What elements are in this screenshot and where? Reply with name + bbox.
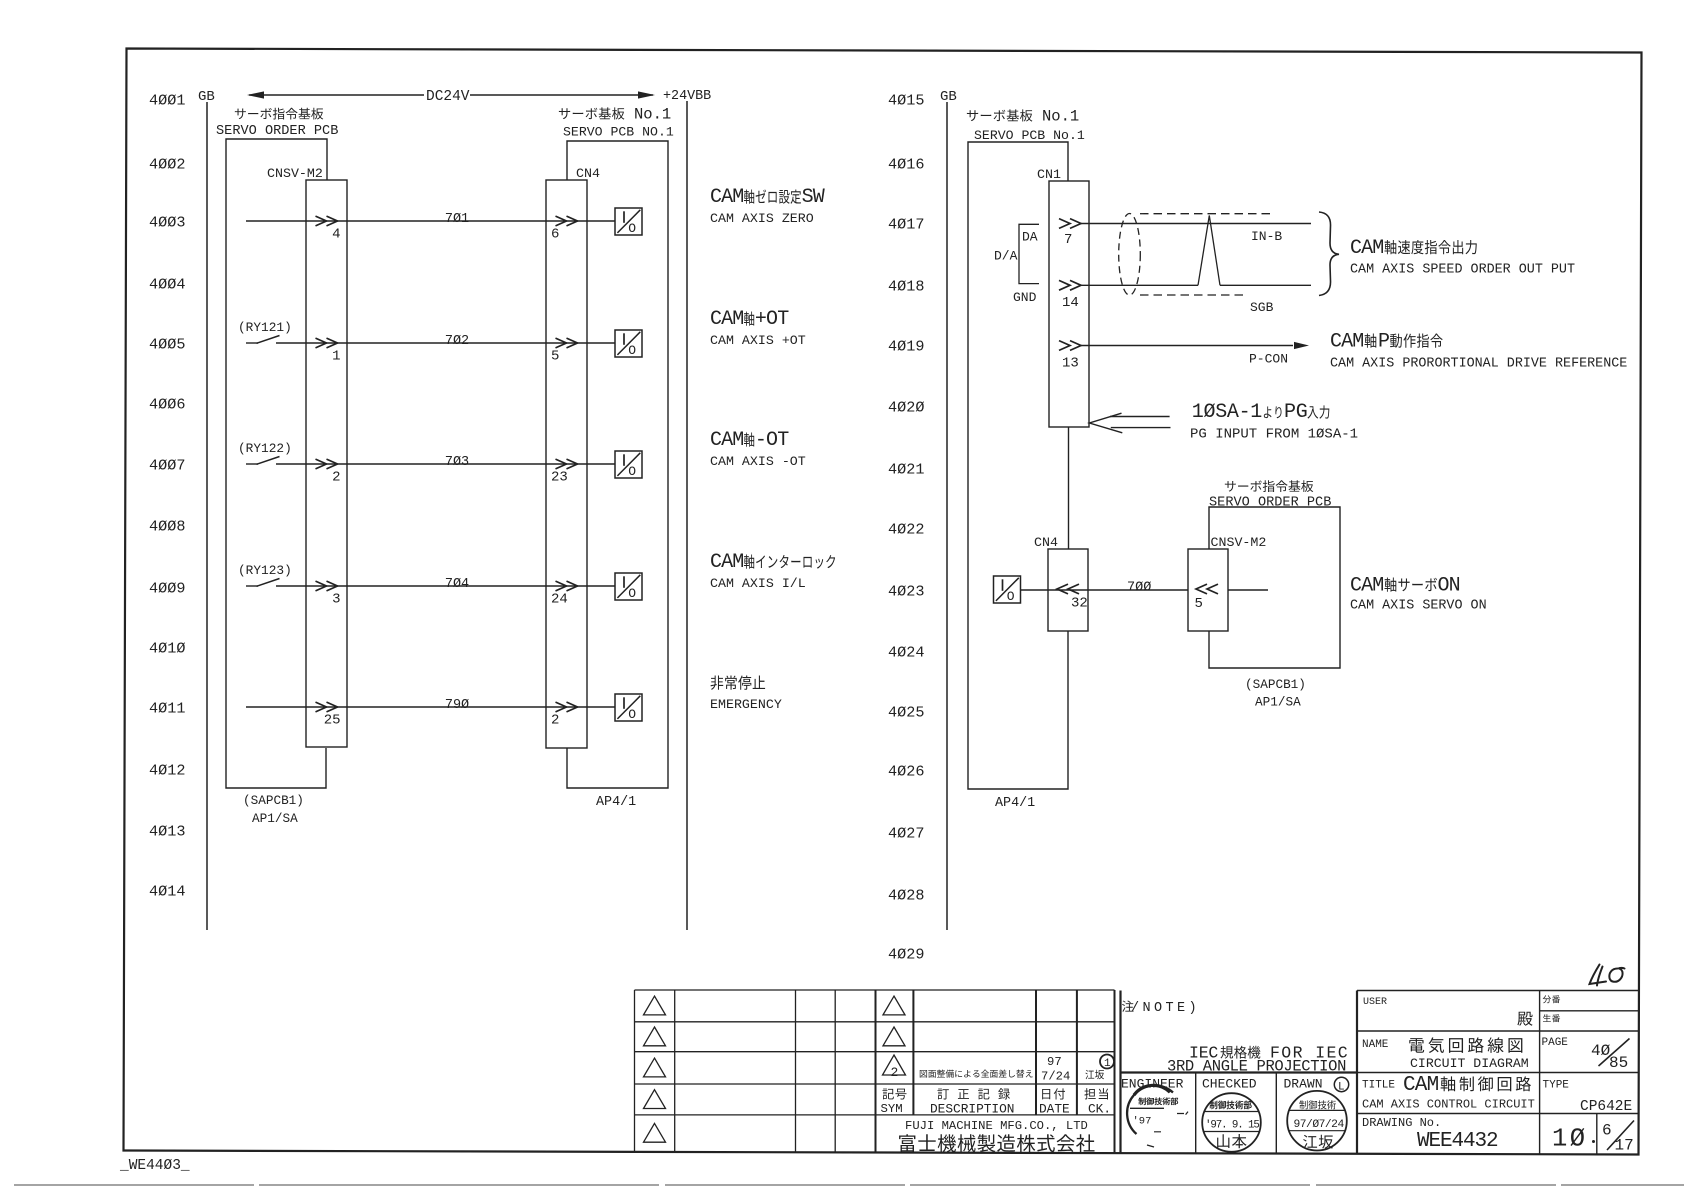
svg-text:SERVO PCB NO.1: SERVO PCB NO.1 [563, 125, 674, 140]
svg-text:4Ø29: 4Ø29 [888, 946, 924, 964]
svg-text:O: O [628, 343, 636, 358]
svg-text:7Ø2: 7Ø2 [445, 334, 469, 349]
svg-text:5: 5 [1195, 596, 1203, 612]
stamp checked [1202, 1093, 1261, 1152]
svg-text:4Ø18: 4Ø18 [888, 278, 924, 296]
rev triangle L5 [644, 1123, 666, 1142]
svg-text:WEE4432: WEE4432 [1417, 1130, 1498, 1153]
svg-text:4ØØ5: 4ØØ5 [149, 336, 185, 354]
svg-text:_WE44Ø3_: _WE44Ø3_ [119, 1158, 190, 1174]
svg-text:PAGE: PAGE [1542, 1037, 1569, 1049]
title block grid right [1357, 991, 1639, 1114]
wire PG input upper [1110, 416, 1170, 418]
svg-text:7Ø3: 7Ø3 [445, 455, 469, 470]
svg-text:4Ø14: 4Ø14 [149, 883, 185, 901]
shield cable dashed outline [1119, 214, 1141, 296]
rev triangle L2 [644, 1027, 666, 1046]
I/O symbol row 703 [615, 451, 642, 478]
rev triangle L4 [644, 1090, 666, 1109]
svg-text:+OT: +OT [755, 308, 789, 331]
svg-text:P: P [1378, 331, 1389, 354]
svg-text:14: 14 [1062, 295, 1079, 311]
svg-text:4ØØ7: 4ØØ7 [149, 457, 185, 475]
node tono [1517, 1012, 1532, 1026]
svg-text:3RD ANGLE PROJECTION: 3RD ANGLE PROJECTION [1167, 1058, 1346, 1076]
node bunban [1543, 995, 1551, 1003]
node denki kairo zu [1409, 1038, 1424, 1053]
svg-text:CIRCUIT DIAGRAM: CIRCUIT DIAGRAM [1410, 1056, 1529, 1071]
power rail +24VBB [686, 101, 688, 930]
svg-text:PG: PG [1284, 401, 1307, 424]
svg-text:SERVO PCB No.1: SERVO PCB No.1 [974, 128, 1085, 143]
svg-text:4Ø17: 4Ø17 [888, 216, 924, 234]
pin 32 CN4 right [1057, 584, 1079, 594]
node circled 1 mark [1100, 1055, 1114, 1069]
box SERVO ORDER PCB (SAPCB1) [226, 139, 327, 788]
svg-text:No.1: No.1 [634, 106, 671, 124]
svg-text:SGB: SGB [1250, 300, 1274, 315]
rev triangle L3 [644, 1058, 666, 1077]
pin 25 CNSV-M2 left [316, 702, 338, 712]
svg-text:1ØSA-1: 1ØSA-1 [1192, 401, 1263, 424]
svg-text:SERVO ORDER PCB: SERVO ORDER PCB [1209, 496, 1331, 511]
node header CK [1084, 1088, 1095, 1099]
twisted pair crossover symbol [1198, 216, 1220, 286]
svg-text:TITLE: TITLE [1362, 1080, 1395, 1092]
svg-text:CAM AXIS CONTROL CIRCUIT: CAM AXIS CONTROL CIRCUIT [1362, 1098, 1535, 1112]
svg-text:O: O [628, 707, 636, 722]
connector CN4 right [1048, 549, 1088, 631]
connector CNSV-M2 left [306, 180, 347, 747]
svg-text:CK.: CK. [1088, 1102, 1111, 1117]
svg-text:1: 1 [1104, 1058, 1111, 1070]
node servo order pcb label JP left [235, 109, 246, 120]
svg-text:AP4/1: AP4/1 [596, 795, 636, 810]
svg-text:CAM: CAM [1330, 331, 1363, 354]
box SERVO ORDER PCB right (SAPCB1) [1209, 507, 1340, 668]
svg-text:ON: ON [1438, 575, 1460, 598]
wire 700 [1021, 589, 1269, 591]
svg-text:7/24: 7/24 [1041, 1070, 1070, 1084]
wire SGB [1081, 284, 1311, 286]
svg-text:17: 17 [1615, 1137, 1634, 1155]
pin 5 CN4 left [556, 338, 578, 348]
svg-text:DATE: DATE [1039, 1102, 1070, 1117]
node note label [1122, 1000, 1134, 1011]
svg-text:5: 5 [551, 349, 559, 365]
svg-text:4ØØ3: 4ØØ3 [149, 214, 185, 232]
pin 14 CN1 [1059, 280, 1081, 290]
svg-text:(RY123): (RY123) [238, 563, 292, 578]
svg-text:CAM: CAM [710, 551, 743, 574]
svg-text:13: 13 [1062, 356, 1079, 372]
svg-text:4Ø13: 4Ø13 [149, 823, 185, 841]
svg-text:CAM AXIS I/L: CAM AXIS I/L [710, 576, 806, 591]
svg-text:GND: GND [1013, 290, 1037, 305]
wire DC24V span [249, 94, 653, 96]
node description EMERGENCY [711, 676, 724, 690]
svg-text:FUJI MACHINE MFG.CO., LTD: FUJI MACHINE MFG.CO., LTD [905, 1119, 1088, 1133]
svg-text:TYPE: TYPE [1543, 1080, 1570, 1092]
wire P-CON [1081, 345, 1293, 347]
wire CN1 to CN4 vertical [1068, 427, 1070, 549]
svg-text:CNSV-M2: CNSV-M2 [267, 166, 323, 181]
svg-text:(SAPCB1): (SAPCB1) [1245, 677, 1306, 692]
rev triangle L1 [644, 996, 666, 1015]
svg-text:'97: '97 [1133, 1116, 1152, 1128]
svg-text:CN1: CN1 [1037, 167, 1061, 182]
box SERVO PCB No.1 left (AP4/1) [567, 141, 668, 788]
pin 23 CN4 left [556, 459, 578, 469]
svg-text:CAM AXIS +OT: CAM AXIS +OT [710, 333, 806, 348]
svg-text:6: 6 [1602, 1122, 1612, 1140]
stamp row dividers [1196, 1073, 1277, 1155]
svg-text:85: 85 [1609, 1054, 1628, 1072]
wire 704 [276, 585, 615, 587]
svg-text:4Ø15: 4Ø15 [888, 92, 924, 110]
node header SYM [882, 1089, 893, 1100]
I/O symbol row 790 [615, 694, 642, 721]
svg-text:(SAPCB1): (SAPCB1) [243, 793, 304, 808]
svg-text:EMERGENCY: EMERGENCY [710, 697, 782, 712]
pin 3 CNSV-M2 left [316, 581, 338, 591]
svg-text:4ØØ2: 4ØØ2 [149, 156, 185, 174]
box SERVO PCB No.1 right (AP4/1) [968, 142, 1068, 789]
svg-text:4ØØ8: 4ØØ8 [149, 518, 185, 536]
svg-text:4Ø25: 4Ø25 [888, 704, 924, 722]
pin 13 CN1 [1059, 341, 1081, 351]
stamp engineer [1127, 1086, 1173, 1134]
svg-text:NAME: NAME [1362, 1039, 1389, 1051]
connector CN1 [1049, 181, 1089, 427]
svg-text:4ØØ9: 4ØØ9 [149, 580, 185, 598]
svg-text:CAM: CAM [1350, 237, 1383, 260]
svg-text:4Ø19: 4Ø19 [888, 338, 924, 356]
svg-text:3: 3 [332, 592, 340, 608]
pin 2 CNSV-M2 left [316, 459, 338, 469]
svg-text:CN4: CN4 [576, 166, 600, 181]
svg-text:CAM: CAM [1350, 575, 1383, 598]
pin 6 CN4 left [556, 216, 578, 226]
pin 24 CN4 left [556, 581, 578, 591]
svg-text:No.1: No.1 [1042, 108, 1079, 126]
svg-text:CAM AXIS PRORORTIONAL DRIVE RE: CAM AXIS PRORORTIONAL DRIVE REFERENCE [1330, 357, 1627, 372]
power rail GB right [946, 102, 948, 930]
svg-text:SYM: SYM [881, 1102, 903, 1116]
svg-text:7Ø1: 7Ø1 [445, 212, 469, 227]
node seiban [1543, 1014, 1551, 1022]
wire 702 [276, 342, 615, 344]
svg-text:CAM AXIS SERVO ON: CAM AXIS SERVO ON [1350, 599, 1487, 614]
svg-text:CAM: CAM [1403, 1074, 1439, 1097]
rev triangle 2 [883, 1055, 906, 1075]
pin 4 CNSV-M2 left [316, 216, 338, 226]
svg-text:4Ø11: 4Ø11 [149, 700, 185, 718]
svg-text:CAM: CAM [710, 429, 743, 452]
svg-text:1Ø: 1Ø [1552, 1125, 1588, 1154]
svg-text:CHECKED: CHECKED [1202, 1077, 1257, 1092]
svg-text:SERVO ORDER PCB: SERVO ORDER PCB [216, 124, 338, 139]
svg-text:(RY121): (RY121) [238, 320, 292, 335]
rev triangle M2 [883, 1027, 905, 1046]
svg-text:CAM AXIS -OT: CAM AXIS -OT [710, 454, 806, 469]
pin 2 CN4 left [556, 702, 578, 712]
svg-text:4Ø21: 4Ø21 [888, 461, 924, 479]
svg-text:DRAWN: DRAWN [1284, 1077, 1323, 1092]
node D/A bracket [1019, 224, 1039, 283]
svg-text:4Ø26: 4Ø26 [888, 763, 924, 781]
node fuji kikai JP [899, 1134, 915, 1152]
svg-text:USER: USER [1363, 997, 1387, 1008]
svg-text:P-CON: P-CON [1249, 352, 1288, 367]
svg-text:O: O [628, 221, 636, 236]
node servo pcb no1 label JP left [559, 108, 570, 119]
wire [14, 1184, 1684, 1186]
I/O symbol servo on [994, 576, 1021, 603]
svg-text:25: 25 [324, 713, 341, 729]
svg-text:4Ø27: 4Ø27 [888, 825, 924, 843]
rev table left [635, 990, 876, 1115]
svg-text:4Ø24: 4Ø24 [888, 644, 924, 662]
node servo order pcb label JP right [1225, 481, 1236, 492]
connector CNSV-M2 right [1188, 549, 1228, 631]
svg-text:CAM AXIS ZERO: CAM AXIS ZERO [710, 211, 814, 226]
svg-text:CAM: CAM [710, 186, 743, 209]
pin 7 CN1 [1059, 219, 1081, 229]
pin 5 CNSV-M2 right [1196, 584, 1218, 594]
note box [1121, 991, 1358, 1155]
svg-text:CAM: CAM [710, 308, 743, 331]
rev table middle [876, 990, 1115, 1115]
svg-text:6: 6 [551, 227, 559, 243]
stamp drawn [1287, 1091, 1347, 1151]
svg-text:7: 7 [1064, 232, 1072, 248]
svg-text:D/A: D/A [994, 249, 1018, 264]
I/O symbol row 702 [615, 330, 642, 357]
node revision by 江坂 [1085, 1070, 1094, 1079]
svg-text:32: 32 [1071, 596, 1088, 612]
svg-text:2: 2 [551, 713, 559, 729]
svg-text:4: 4 [332, 227, 340, 243]
svg-text:IN-B: IN-B [1251, 229, 1282, 244]
svg-text:2: 2 [332, 470, 340, 486]
svg-text:DC24V: DC24V [426, 89, 470, 105]
svg-text:7Ø4: 7Ø4 [445, 577, 469, 592]
svg-text:CP642E: CP642E [1580, 1099, 1632, 1115]
node revision description [920, 1070, 927, 1078]
svg-text:(RY122): (RY122) [238, 441, 292, 456]
svg-text:CNSV-M2: CNSV-M2 [1211, 535, 1267, 550]
node header DESCRIPTION [937, 1089, 948, 1100]
svg-text:/NOTE): /NOTE) [1131, 1001, 1200, 1016]
svg-text:4Ø12: 4Ø12 [149, 762, 185, 780]
svg-text:AP1/SA: AP1/SA [252, 811, 298, 826]
wire IN-B [1081, 223, 1311, 225]
svg-text:O: O [1007, 589, 1015, 604]
svg-text:2: 2 [891, 1065, 899, 1080]
svg-text:DA: DA [1022, 230, 1038, 245]
wire PG input arrowhead [1089, 413, 1122, 433]
node servo pcb no1 label JP right [967, 110, 978, 121]
svg-text:O: O [628, 586, 636, 601]
svg-text:DESCRIPTION: DESCRIPTION [930, 1102, 1014, 1117]
wire 703 [276, 463, 615, 465]
svg-text:L: L [1338, 1082, 1345, 1094]
rev triangle M1 [883, 996, 905, 1015]
brace speed order output [1319, 212, 1339, 296]
svg-text:24: 24 [551, 592, 568, 608]
svg-text:4Ø22: 4Ø22 [888, 521, 924, 539]
svg-text:4ØØ6: 4ØØ6 [149, 396, 185, 414]
power rail GB left [206, 102, 208, 930]
connector CN4 left [546, 180, 587, 748]
node circled L [1334, 1077, 1348, 1091]
svg-text:O: O [628, 464, 636, 479]
svg-text:GB: GB [940, 89, 957, 105]
svg-text:79Ø: 79Ø [445, 698, 469, 713]
I/O symbol row 704 [615, 573, 642, 600]
pin 1 CNSV-M2 left [316, 338, 338, 348]
svg-text:4Ø16: 4Ø16 [888, 156, 924, 174]
wire 701 [246, 220, 615, 222]
svg-text:DRAWING No.: DRAWING No. [1362, 1116, 1441, 1130]
svg-text:CN4: CN4 [1034, 535, 1058, 550]
node header DATE [1042, 1089, 1050, 1099]
svg-text:AP4/1: AP4/1 [995, 796, 1035, 811]
svg-text:4ØØ1: 4ØØ1 [149, 92, 185, 110]
node handwritten 40 [1590, 965, 1607, 986]
svg-text:-OT: -OT [755, 429, 789, 452]
svg-text:4Ø23: 4Ø23 [888, 583, 924, 601]
svg-text:CAM AXIS SPEED ORDER OUT PUT: CAM AXIS SPEED ORDER OUT PUT [1350, 263, 1575, 278]
I/O symbol row 701 [615, 208, 642, 235]
wire 790 [246, 706, 615, 708]
svg-text:PG INPUT FROM 1ØSA-1: PG INPUT FROM 1ØSA-1 [1190, 427, 1358, 443]
svg-text:'97. 9. 15: '97. 9. 15 [1205, 1120, 1259, 1132]
svg-text:23: 23 [551, 470, 568, 486]
svg-text:4Ø2Ø: 4Ø2Ø [888, 399, 924, 417]
svg-text:SW: SW [802, 186, 825, 209]
svg-text:97/Ø7/24: 97/Ø7/24 [1294, 1119, 1345, 1131]
svg-text:7ØØ: 7ØØ [1127, 581, 1151, 596]
svg-text:AP1/SA: AP1/SA [1255, 695, 1301, 710]
svg-text:4Ø28: 4Ø28 [888, 887, 924, 905]
svg-text:1: 1 [332, 349, 340, 365]
svg-text:4ØØ4: 4ØØ4 [149, 276, 185, 294]
svg-text:97: 97 [1047, 1055, 1062, 1069]
wire PG input lower [1111, 427, 1171, 429]
svg-text:4Ø1Ø: 4Ø1Ø [149, 640, 185, 658]
